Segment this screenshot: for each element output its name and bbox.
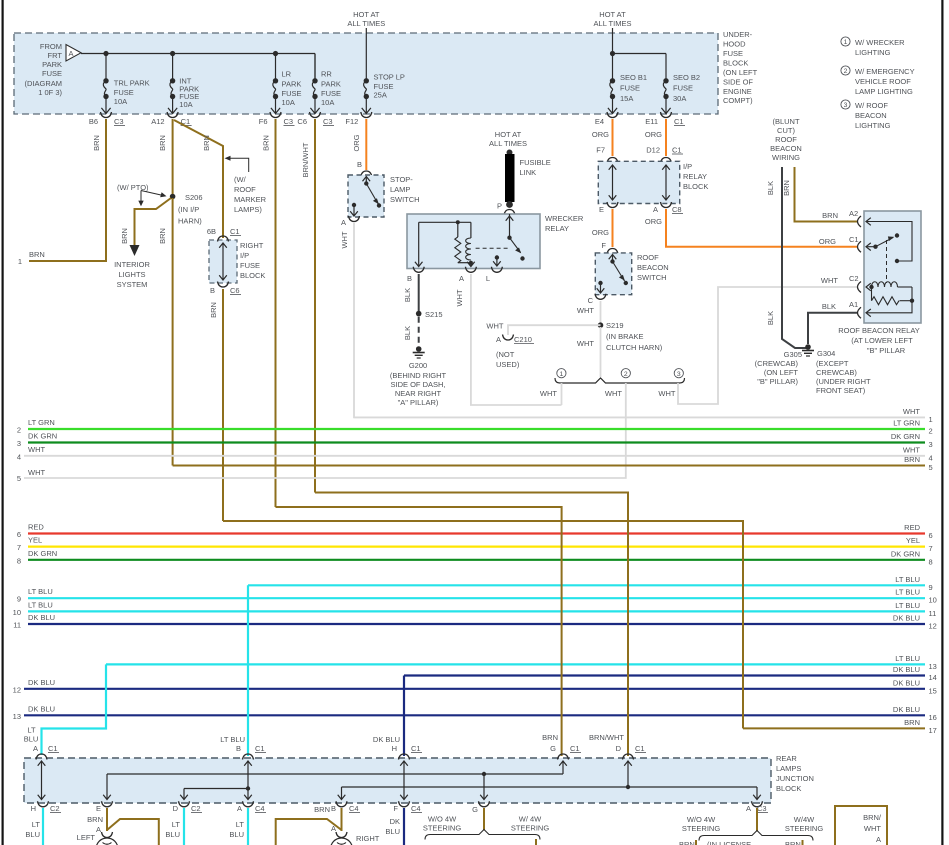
svg-text:FUSE: FUSE (282, 89, 302, 98)
svg-text:ALL TIMES: ALL TIMES (347, 19, 385, 28)
svg-text:10A: 10A (179, 100, 192, 109)
svg-text:PARK: PARK (42, 60, 62, 69)
svg-text:C2: C2 (849, 274, 859, 283)
wire RED bus 6 (17, 523, 933, 541)
svg-text:BRN/WHT: BRN/WHT (301, 142, 310, 177)
underhood fuse block (14, 33, 718, 114)
svg-text:LIGHTING: LIGHTING (855, 121, 891, 130)
svg-text:C1: C1 (674, 117, 684, 126)
svg-text:(CREWCAB): (CREWCAB) (755, 359, 799, 368)
label BRN/WHT vertical (301, 142, 310, 177)
circled 1 (557, 369, 566, 378)
svg-text:LIGHTING: LIGHTING (855, 48, 891, 57)
wire LT GRN bus 2 (17, 418, 933, 436)
wire BRN w4w stub (535, 839, 537, 845)
connector 6B C1 entry (207, 227, 241, 242)
label (NOT USED) (496, 350, 520, 369)
svg-text:FRONT SEAT): FRONT SEAT) (816, 386, 866, 395)
svg-text:A: A (331, 824, 336, 833)
label (W/ ROOF MARKER LAMPS) (234, 175, 267, 214)
junction internal rail1 (103, 761, 567, 800)
label FROM FRT PARK FUSE (25, 42, 63, 97)
label HOT AT ALL TIMES left (347, 10, 385, 28)
svg-text:4: 4 (929, 453, 933, 462)
svg-text:C3: C3 (284, 117, 294, 126)
svg-text:FUSIBLE: FUSIBLE (520, 158, 551, 167)
label ROOF BEACON RELAY (838, 326, 920, 355)
svg-text:P: P (497, 202, 502, 211)
svg-text:RIGHT: RIGHT (356, 834, 380, 843)
svg-text:C1: C1 (255, 744, 265, 753)
svg-text:ALL TIMES: ALL TIMES (489, 139, 527, 148)
label LEFT REAR (74, 833, 95, 845)
roof beacon switch box (595, 253, 631, 295)
connector C roof beacon (588, 294, 606, 305)
junction internal H C1 (400, 761, 408, 800)
label WRECKER RELAY (545, 214, 584, 233)
svg-text:C: C (588, 296, 594, 305)
wrecker relay coil (466, 222, 475, 266)
svg-text:25A: 25A (374, 91, 387, 100)
svg-text:BRN: BRN (782, 180, 791, 196)
svg-text:RIGHT: RIGHT (240, 241, 264, 250)
svg-text:BLK: BLK (403, 288, 412, 302)
relay terminal C1 switch (858, 233, 900, 252)
wire BRN LR PARK to G C1 (276, 507, 562, 756)
svg-text:G200: G200 (409, 361, 427, 370)
junction internal B C1 (180, 761, 252, 800)
I/P relay block box (598, 161, 679, 203)
wire WHT stop lamp to bus1 (354, 223, 925, 417)
brace steering right (699, 831, 813, 841)
wire BRN B C4 exit to right rear lamp (341, 808, 343, 831)
junction exit labels (31, 804, 768, 814)
svg-text:W/ ROOF: W/ ROOF (855, 101, 888, 110)
label SEO B1 FUSE 15A (620, 73, 647, 103)
label LT BLU d c2 (165, 820, 180, 839)
wire ORG A C8 to relay C1 (666, 209, 858, 247)
svg-text:C6: C6 (297, 117, 307, 126)
svg-text:BRN: BRN (158, 228, 167, 244)
svg-text:LT BLU: LT BLU (28, 600, 53, 609)
fuse TRL PARK 10A (101, 54, 110, 114)
svg-text:RELAY: RELAY (545, 224, 569, 233)
svg-text:A: A (496, 335, 501, 344)
arrow interior lights (130, 245, 140, 256)
label INTERIOR LIGHTS SYSTEM (114, 260, 150, 289)
svg-text:A2: A2 (849, 209, 858, 218)
label ORG e4 (592, 130, 609, 139)
fuse RR PARK 10A (310, 54, 319, 114)
node A triangle from FRT PARK FUSE (66, 45, 81, 62)
label HOT AT ALL TIMES fusible (489, 130, 527, 148)
svg-text:BLOCK: BLOCK (240, 271, 265, 280)
wire ORG E4 to F7 (612, 119, 614, 156)
svg-text:STEERING: STEERING (423, 824, 462, 833)
ground G304 (802, 344, 814, 356)
svg-text:DK BLU: DK BLU (28, 678, 55, 687)
svg-text:ROOF: ROOF (637, 253, 659, 262)
svg-text:(DIAGRAM: (DIAGRAM (25, 79, 63, 88)
label WHT stop lamp (340, 231, 349, 248)
connector E11 C1 (645, 112, 685, 126)
roof beacon switch contacts (597, 255, 628, 294)
svg-text:FUSE: FUSE (42, 69, 62, 78)
svg-text:3: 3 (844, 102, 848, 109)
pointer roof marker lamps (225, 156, 249, 172)
wire BRN right lamp branch (276, 819, 342, 845)
label STOP LP FUSE 25A (374, 73, 405, 100)
svg-text:LAMP: LAMP (390, 185, 410, 194)
footnote 1 (841, 37, 905, 57)
svg-text:BRN: BRN (679, 840, 695, 845)
svg-text:B: B (331, 804, 336, 813)
label WHT leg3 (658, 389, 675, 398)
svg-text:5: 5 (929, 463, 933, 472)
junction internal A C1 to H C2 (38, 761, 46, 800)
svg-text:I/P: I/P (683, 162, 692, 171)
wire BRN/WHT from C6 (314, 119, 316, 493)
label BLK blunt (766, 181, 775, 195)
svg-text:(IN BRAKE: (IN BRAKE (606, 332, 644, 341)
fuse STOP LP 25A (362, 78, 371, 113)
svg-text:DK GRN: DK GRN (28, 549, 57, 558)
wire WHT S219 to C210 (508, 325, 601, 335)
label RIGHT REAR (356, 834, 380, 845)
label BRN vertical to ip block (202, 135, 211, 151)
pointer PTO to S206 (141, 191, 167, 198)
label BLK above S215 (403, 288, 412, 302)
svg-text:E11: E11 (645, 117, 658, 126)
svg-text:G: G (472, 805, 478, 814)
svg-text:C6: C6 (230, 286, 240, 295)
ip relay internal arrow left (609, 165, 617, 200)
label STOP-LAMP SWITCH (390, 175, 420, 204)
wire BRN from F6 (275, 119, 277, 507)
svg-text:17: 17 (929, 726, 937, 735)
wire LT BLU D C2 exit (183, 808, 185, 845)
svg-text:SWITCH: SWITCH (637, 273, 667, 282)
circled 2 (621, 369, 630, 378)
wire WHT S219 to brace (600, 327, 602, 377)
wire LT BLU B C1 drop (247, 585, 249, 756)
stop lamp switch contacts (350, 177, 381, 217)
wire WHT bus 4 (17, 445, 933, 463)
lamp RIGHT REAR (331, 832, 353, 845)
svg-text:SEO B2: SEO B2 (673, 73, 700, 82)
connector B C6 exit (210, 282, 241, 296)
svg-text:FRT: FRT (48, 51, 63, 60)
svg-text:1: 1 (844, 39, 848, 46)
page border left (2, 0, 4, 845)
wire BLK from B wrecker (418, 274, 420, 312)
svg-text:1 0F 3): 1 0F 3) (38, 88, 62, 97)
svg-text:G305: G305 (784, 350, 802, 359)
label B stop lamp (357, 160, 362, 169)
svg-text:LT BLU: LT BLU (895, 601, 920, 610)
svg-text:WRECKER: WRECKER (545, 214, 584, 223)
wire LT BLU H C2 exit (42, 808, 44, 845)
svg-text:(ON LEFT: (ON LEFT (723, 68, 758, 77)
wire WHT leg1 (561, 383, 563, 405)
svg-text:BRN: BRN (209, 302, 218, 318)
wire BRN license stub left (695, 840, 697, 845)
svg-text:BRN: BRN (202, 135, 211, 151)
label BLUNT CUT ROOF BEACON WIRING (770, 117, 802, 162)
label D12 C1 (646, 146, 683, 155)
svg-text:C2: C2 (191, 804, 201, 813)
svg-text:F6: F6 (259, 117, 268, 126)
svg-text:14: 14 (929, 673, 937, 682)
svg-text:STEERING: STEERING (785, 824, 824, 833)
svg-text:C4: C4 (255, 804, 265, 813)
wire BRN blunt cut to A2 (795, 167, 859, 222)
svg-text:WHT: WHT (28, 445, 45, 454)
connector F6 C3 (259, 112, 295, 126)
wrecker relay left drop to B (415, 222, 423, 266)
svg-text:BRN: BRN (542, 733, 558, 742)
connector L wrecker (486, 267, 503, 283)
svg-text:C4: C4 (349, 804, 359, 813)
junction block labels top (24, 726, 646, 754)
svg-text:16: 16 (929, 713, 937, 722)
svg-text:ORG: ORG (645, 130, 662, 139)
svg-text:FUSE: FUSE (240, 261, 260, 270)
svg-text:B: B (357, 160, 362, 169)
svg-text:LT: LT (236, 820, 245, 829)
label BRN vertical pto (120, 228, 129, 244)
wire BRN PTO branch (135, 198, 172, 245)
label ORG e11 (645, 130, 662, 139)
svg-text:FUSE: FUSE (620, 84, 640, 93)
svg-text:FUSE: FUSE (321, 89, 341, 98)
svg-text:S219: S219 (606, 321, 624, 330)
connector A C8 exit (653, 202, 683, 214)
label BRN vertical b6 (92, 135, 101, 151)
footnote 2 (841, 66, 915, 96)
svg-text:7: 7 (929, 544, 933, 553)
connector B wrecker (407, 267, 424, 283)
relay terminal A1 (858, 307, 871, 318)
svg-text:A: A (459, 274, 464, 283)
svg-text:A: A (69, 49, 74, 58)
svg-text:WHT: WHT (864, 824, 881, 833)
wire BRN G exit (483, 808, 485, 831)
relay dashed link (886, 240, 888, 283)
svg-text:W/4W: W/4W (794, 815, 815, 824)
label W/O 4W STEERING right (682, 815, 721, 833)
svg-text:"B" PILLAR): "B" PILLAR) (757, 377, 798, 386)
svg-text:WHT: WHT (28, 468, 45, 477)
label G304 (816, 349, 871, 395)
svg-text:BRN/: BRN/ (863, 813, 882, 822)
svg-text:LT BLU: LT BLU (28, 587, 53, 596)
svg-text:9: 9 (17, 595, 21, 604)
label BRN blunt (782, 180, 791, 196)
svg-text:(BEHIND RIGHT: (BEHIND RIGHT (390, 371, 447, 380)
svg-text:WHT: WHT (821, 276, 838, 285)
svg-text:LAMP LIGHTING: LAMP LIGHTING (855, 87, 913, 96)
svg-text:WHT: WHT (577, 339, 594, 348)
svg-text:WHT: WHT (340, 231, 349, 248)
svg-text:12: 12 (13, 685, 21, 694)
junction entries (36, 754, 634, 760)
svg-text:LR: LR (282, 70, 292, 79)
circled 3 (674, 369, 683, 378)
wire BRN A12 to right IP block (174, 120, 223, 238)
label WHT C2 relay (821, 274, 859, 285)
label W/4W STEERING right (785, 815, 824, 833)
wire BRN/WHT to D C1 (315, 493, 628, 757)
svg-text:ORG: ORG (352, 134, 361, 151)
svg-text:BRN: BRN (158, 135, 167, 151)
svg-text:E4: E4 (595, 117, 604, 126)
label DK BLU f c4 (385, 817, 400, 836)
svg-text:YEL: YEL (28, 536, 42, 545)
svg-text:HOOD: HOOD (723, 40, 746, 49)
wrecker relay coil rail (419, 220, 471, 224)
wire fuse block bus left (81, 53, 315, 55)
svg-text:USED): USED) (496, 360, 520, 369)
svg-text:ROOF BEACON RELAY: ROOF BEACON RELAY (838, 326, 920, 335)
svg-text:E: E (599, 205, 604, 214)
svg-text:DK BLU: DK BLU (893, 705, 920, 714)
svg-text:A: A (96, 825, 101, 834)
svg-text:JUNCTION: JUNCTION (776, 774, 814, 783)
wire BRN left lamp branch (107, 819, 159, 845)
svg-text:STOP-: STOP- (390, 175, 413, 184)
connector F roof beacon switch (607, 249, 618, 255)
wire WHT leg2 (24, 383, 626, 478)
svg-text:(UNDER RIGHT: (UNDER RIGHT (816, 377, 871, 386)
svg-text:LT BLU: LT BLU (895, 575, 920, 584)
label BRN/WHT A (863, 813, 882, 844)
svg-text:10A: 10A (282, 98, 295, 107)
svg-text:F12: F12 (345, 117, 358, 126)
svg-text:DK: DK (390, 817, 400, 826)
pointer PTO to branch (138, 191, 143, 207)
svg-text:B: B (210, 286, 215, 295)
svg-text:BRN: BRN (904, 455, 920, 464)
svg-text:FROM: FROM (40, 42, 62, 51)
svg-text:DK BLU: DK BLU (893, 665, 920, 674)
svg-text:PARK: PARK (321, 80, 341, 89)
svg-text:HOT AT: HOT AT (495, 130, 522, 139)
label P (497, 202, 502, 211)
connector B stop lamp switch (361, 171, 372, 177)
wire ORG from F12 (365, 119, 367, 170)
fuse INT PARK 10A (168, 54, 177, 114)
svg-text:A: A (341, 218, 346, 227)
svg-text:LIGHTS: LIGHTS (118, 270, 145, 279)
svg-text:1: 1 (18, 257, 22, 266)
svg-text:B: B (236, 744, 241, 753)
label WHT leg2 (605, 389, 622, 398)
rear lamps junction block box (24, 758, 771, 803)
svg-text:C1: C1 (635, 744, 645, 753)
svg-text:W/O 4W: W/O 4W (687, 815, 716, 824)
svg-text:BLOCK: BLOCK (723, 59, 748, 68)
wire DK BLU bus 11-12 (13, 613, 937, 631)
svg-text:C8: C8 (672, 205, 682, 214)
node S219 (598, 321, 663, 352)
label BRN vertical f6 (262, 135, 271, 151)
right I/P fuse block box (209, 240, 237, 283)
label WHT to c210 (486, 322, 503, 331)
svg-text:B6: B6 (89, 117, 98, 126)
svg-text:7: 7 (17, 543, 21, 552)
svg-text:DK BLU: DK BLU (28, 704, 55, 713)
label BRN in license (679, 840, 801, 845)
svg-text:G: G (550, 744, 556, 753)
relay terminal A2 (858, 216, 913, 263)
svg-text:ROOF: ROOF (234, 185, 256, 194)
svg-text:BLK: BLK (766, 311, 775, 325)
stop lamp switch box (348, 175, 384, 217)
label A right lamp (331, 824, 336, 833)
svg-text:11: 11 (929, 609, 937, 618)
fusible link (505, 150, 515, 208)
svg-text:6: 6 (17, 530, 21, 539)
svg-text:ORG: ORG (592, 228, 609, 237)
svg-text:UNDER-: UNDER- (723, 30, 753, 39)
svg-text:STEERING: STEERING (511, 824, 550, 833)
label BLK A1 relay (822, 300, 858, 311)
svg-text:(W/: (W/ (234, 175, 247, 184)
svg-text:B: B (407, 274, 412, 283)
svg-text:BLK: BLK (766, 181, 775, 195)
label BRN vertical a12 (158, 135, 167, 151)
junction exits (38, 801, 763, 807)
svg-text:1: 1 (560, 371, 564, 378)
label WHT below A wrecker (455, 289, 464, 306)
connector A C210 (496, 335, 534, 345)
svg-text:WIRING: WIRING (772, 153, 800, 162)
svg-text:BLU: BLU (25, 830, 40, 839)
svg-text:D: D (173, 804, 179, 813)
svg-text:15: 15 (929, 686, 937, 695)
svg-text:C1: C1 (48, 744, 58, 753)
svg-text:WHT: WHT (903, 407, 920, 416)
svg-text:11: 11 (13, 621, 21, 630)
wire LT BLU bus right 13 (106, 654, 937, 671)
fuse SEO B2 30A (661, 54, 670, 114)
label SEO B2 FUSE 30A (673, 73, 700, 103)
svg-text:INTERIOR: INTERIOR (114, 260, 150, 269)
svg-text:LAMPS: LAMPS (776, 764, 801, 773)
brace distribution (555, 378, 685, 383)
svg-text:(NOT: (NOT (496, 350, 515, 359)
svg-text:3: 3 (17, 439, 21, 448)
svg-text:1: 1 (929, 415, 933, 424)
svg-text:CUT): CUT) (777, 126, 795, 135)
svg-text:LT BLU: LT BLU (895, 588, 920, 597)
box BRN/WHT bottom right (835, 806, 887, 845)
svg-text:FUSE: FUSE (723, 49, 743, 58)
connector E exit (599, 202, 618, 214)
wire DK GRN bus 8 (17, 549, 933, 567)
svg-text:LT GRN: LT GRN (893, 419, 920, 428)
svg-text:BRN: BRN (785, 840, 801, 845)
svg-text:CLUTCH HARN): CLUTCH HARN) (606, 343, 663, 352)
svg-text:A: A (653, 205, 658, 214)
svg-text:A1: A1 (849, 300, 858, 309)
svg-text:"A" PILLAR): "A" PILLAR) (398, 398, 439, 407)
label 1 BRN left (18, 250, 45, 266)
label G200 (390, 361, 447, 407)
label ORG vertical f12 (352, 134, 361, 151)
svg-text:WHT: WHT (903, 445, 920, 454)
